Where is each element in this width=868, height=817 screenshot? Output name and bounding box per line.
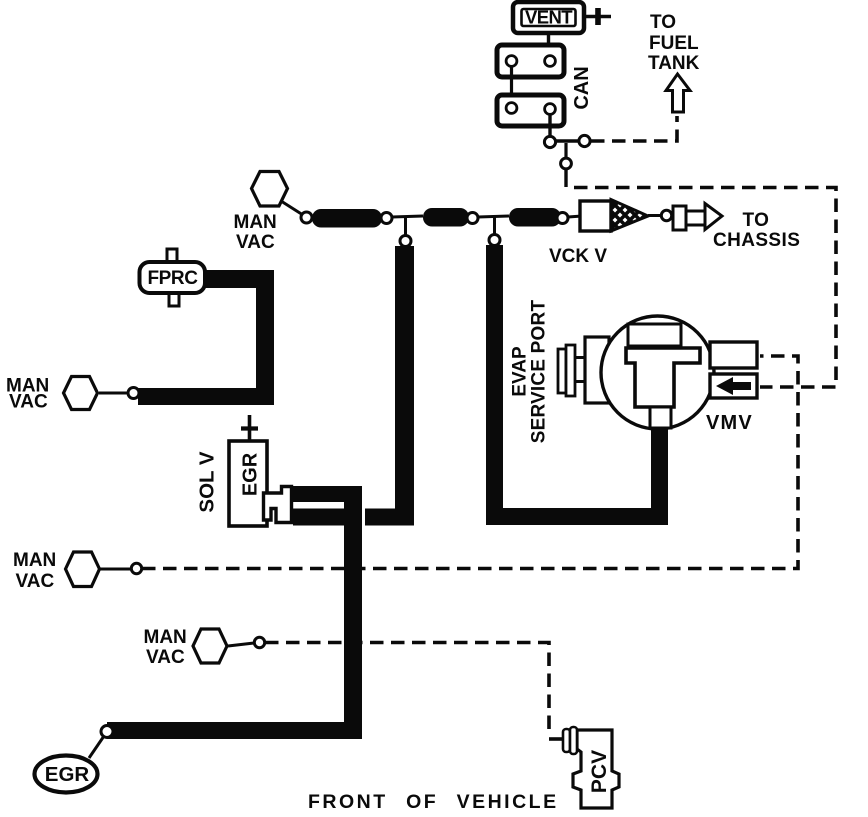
wire node F to check valve — [568, 216, 582, 217]
svg-text:MAN: MAN — [13, 550, 56, 571]
to fuel tank arrow — [666, 74, 690, 112]
vacuum hose FPRC horizontal run — [205, 270, 274, 288]
wire node D to hose segment 3 with tee — [478, 216, 509, 217]
node B — [381, 213, 392, 224]
svg-text:VCK V: VCK V — [549, 246, 607, 267]
svg-text:PCV: PCV — [588, 750, 611, 793]
vacuum hose EGR upper run — [292, 486, 362, 502]
vacuum hose 1 vertical run — [395, 246, 414, 526]
dashed hose canister junction to VMV lower port (right edge) — [574, 188, 836, 388]
svg-text:TO: TO — [743, 210, 770, 231]
wire node I to EGR oval — [89, 736, 104, 758]
svg-text:EGR: EGR — [240, 452, 262, 496]
wire node to dashed corner — [564, 169, 567, 187]
node on down branch — [561, 158, 572, 169]
node G — [661, 210, 671, 220]
VMV flow arrow — [716, 377, 751, 395]
vacuum hose EGR lower run — [293, 509, 344, 526]
dashed hose MAN VAC 4 to PCV — [265, 643, 562, 740]
label EVAP SERVICE PORT rotated — [510, 300, 550, 444]
hexagon MAN VAC 3 — [66, 552, 100, 587]
svg-text:VENT: VENT — [525, 7, 573, 28]
svg-text:VAC: VAC — [16, 571, 55, 592]
VMV body circle — [601, 316, 714, 429]
label TO FUEL TANK — [648, 12, 700, 74]
check valve VCK V body — [580, 201, 611, 231]
vent valve VENT box — [513, 2, 584, 33]
wire node B to hose segment 2 with tee — [392, 216, 423, 217]
node C — [400, 236, 411, 247]
hose segment 3 — [509, 208, 561, 227]
VMV service port knob — [558, 345, 586, 396]
check valve VCK V crosshatched cone — [611, 200, 648, 232]
VMV tee plug — [626, 348, 700, 407]
canister CAN upper body — [497, 45, 564, 77]
svg-text:FRONT OF VEHICLE: FRONT OF VEHICLE — [308, 791, 559, 813]
hose segment 2 — [423, 208, 469, 227]
vacuum hose 1 bottom elbow to EGR sol v — [365, 509, 414, 526]
svg-text:VAC: VAC — [146, 647, 185, 668]
node D — [467, 213, 478, 224]
vacuum hose EGR long vertical run — [344, 486, 362, 739]
hose segment 1 — [312, 209, 382, 228]
canister lower-right port — [545, 104, 556, 115]
wire check valve to node G — [648, 214, 661, 217]
svg-text:FUEL: FUEL — [649, 33, 699, 54]
wire canister to junction node — [548, 114, 551, 138]
svg-text:EGR: EGR — [45, 763, 90, 786]
cross fitting above EGR sol v — [241, 415, 258, 441]
svg-text:VAC: VAC — [9, 392, 48, 413]
wire hexagon 3 to node J — [100, 568, 131, 571]
node K — [254, 637, 264, 647]
canister lower-left port — [506, 103, 517, 114]
label MAN VAC 4 — [144, 627, 187, 668]
node A — [301, 212, 312, 223]
EGR solenoid valve body — [229, 441, 267, 526]
node H at FPRC hose end — [128, 388, 139, 399]
vent cross fitting — [584, 8, 611, 25]
VMV top inner rect — [628, 324, 681, 346]
vacuum hose 2 riser to VMV stub — [651, 427, 668, 517]
svg-text:SERVICE PORT: SERVICE PORT — [529, 300, 550, 444]
node right of junction — [579, 135, 590, 146]
hexagon MAN VAC top — [252, 172, 288, 207]
dashed hose MAN VAC 3 to VMV upper port — [142, 356, 798, 569]
svg-text:TANK: TANK — [648, 53, 700, 74]
svg-text:SOL V: SOL V — [196, 451, 219, 512]
hexagon MAN VAC 2 — [64, 377, 98, 410]
vacuum hose 2 vertical run — [486, 245, 503, 525]
wire junction down branch — [564, 143, 567, 158]
dashed hose junction to fuel tank arrow — [591, 116, 677, 141]
svg-text:CHASSIS: CHASSIS — [713, 230, 800, 251]
node junction below canister — [544, 136, 555, 147]
VMV right lower port — [710, 374, 757, 398]
svg-text:TO: TO — [650, 12, 676, 33]
node I at EGR hose end — [101, 726, 113, 738]
wire hexagon to node A — [281, 201, 303, 215]
wire node H to hexagon MAN VAC 2 — [99, 392, 128, 395]
to chassis connector arrow — [673, 204, 722, 231]
fuel pressure regulator FPRC capsule — [140, 249, 206, 306]
svg-text:MAN: MAN — [234, 212, 277, 233]
canister upper-left port — [506, 56, 517, 67]
label MAN VAC top — [234, 212, 277, 253]
svg-text:VMV: VMV — [706, 412, 753, 434]
vacuum hose FPRC bottom run to MAN VAC — [138, 388, 274, 405]
canister CAN lower body — [497, 95, 564, 126]
wire junction to right node — [556, 139, 579, 142]
node J — [131, 563, 141, 573]
EGR sol v outlet connector — [264, 487, 292, 523]
vacuum hose EGR bottom run — [107, 722, 362, 739]
svg-text:CAN: CAN — [571, 66, 593, 109]
svg-text:FPRC: FPRC — [147, 268, 198, 289]
node F — [557, 213, 568, 224]
node E — [489, 235, 500, 246]
wire tee down to node E — [493, 216, 496, 234]
PCV valve — [563, 727, 619, 808]
vacuum hose FPRC vertical run — [256, 270, 274, 405]
wire tee down to node C — [404, 216, 407, 235]
VMV bottom stub — [650, 407, 671, 428]
svg-text:EVAP: EVAP — [510, 346, 531, 397]
EGR oval — [35, 756, 98, 793]
label TO CHASSIS — [713, 210, 800, 251]
vacuum hose 2 bottom run to VMV — [486, 508, 668, 525]
label MAN VAC 2 — [6, 376, 49, 413]
VMV right upper port — [710, 342, 757, 368]
svg-text:MAN: MAN — [144, 627, 187, 648]
svg-text:VAC: VAC — [236, 232, 275, 253]
label MAN VAC 3 — [13, 550, 56, 592]
wire VENT to canister port — [547, 33, 550, 57]
wire hexagon 4 to node K — [228, 643, 254, 646]
canister upper-right port — [545, 56, 556, 67]
VMV left flange — [585, 337, 609, 403]
wire canister internal port-to-port — [510, 61, 513, 108]
hexagon MAN VAC 4 — [193, 629, 227, 663]
